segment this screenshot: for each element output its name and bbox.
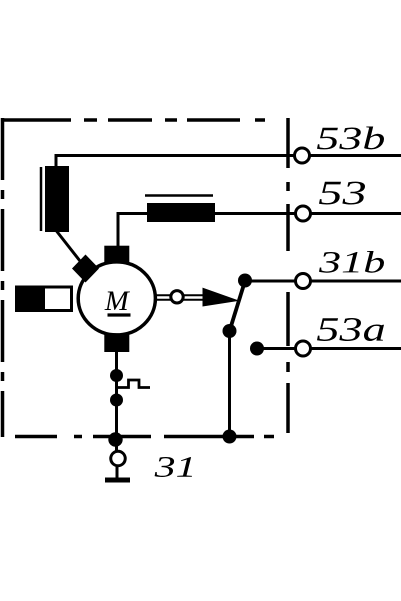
junction dot park contact upper	[110, 369, 123, 382]
label 53b	[317, 127, 384, 150]
wire switch pivot down to bottom border	[228, 331, 231, 437]
resistor R1 (field winding, vertical)	[45, 166, 69, 232]
label 53a	[317, 318, 384, 341]
enclosure right border	[286, 118, 290, 436]
enclosure top border	[2, 118, 273, 122]
wire 53 net: brush to R2 and R2 to terminal 53 out to edge	[118, 214, 401, 249]
terminal circle 31	[111, 451, 126, 466]
motor bottom brush	[104, 334, 129, 352]
motor diagonal brush (diamond)	[72, 255, 99, 283]
label 31	[155, 457, 192, 477]
terminal circle 53b	[295, 148, 310, 163]
motor label M	[105, 292, 131, 311]
switch pivot dot	[223, 324, 237, 338]
terminal circle 53a	[296, 341, 311, 356]
R1 parallel bar	[40, 167, 43, 231]
motor top brush	[104, 246, 129, 264]
label 53	[319, 182, 365, 205]
drive shaft double line	[154, 295, 212, 300]
label 31b	[319, 251, 384, 273]
junction dot at bottom border terminal 31	[108, 432, 122, 446]
wire 31b net: switch contact to terminal 31b out to edge	[245, 280, 401, 283]
wire from R1 bottom to brush diamond	[57, 231, 86, 268]
switch contact dot 53a	[250, 342, 264, 356]
terminal circle 53	[296, 206, 311, 221]
cam step symbol	[118, 380, 150, 388]
enclosure bottom border	[15, 435, 274, 439]
ground stem	[116, 465, 119, 478]
enclosure left border	[1, 118, 5, 437]
switch contact dot 31b	[238, 274, 252, 288]
motor label underline	[108, 313, 131, 316]
wire 53a net: switch contact to terminal 53a out to edge	[257, 347, 401, 350]
resistor R2 (horizontal)	[147, 203, 215, 222]
junction dot switch to bottom border	[223, 430, 237, 444]
crank circle	[171, 291, 183, 303]
wire 53b net: resistor R1 top to terminal 53b and out to edge	[56, 156, 401, 169]
junction dot park contact lower	[110, 394, 123, 407]
drive arrow head	[203, 288, 240, 307]
thermal fuse symbol outline	[17, 287, 72, 311]
thermal fuse filled half	[15, 286, 45, 313]
terminal circle 31b	[296, 274, 311, 289]
switch lever	[230, 281, 246, 331]
motor M1 body circle	[78, 262, 155, 335]
wire motor bottom to terminal 31	[115, 350, 118, 452]
ground bar	[105, 478, 130, 483]
R2 parallel bar	[145, 194, 213, 197]
